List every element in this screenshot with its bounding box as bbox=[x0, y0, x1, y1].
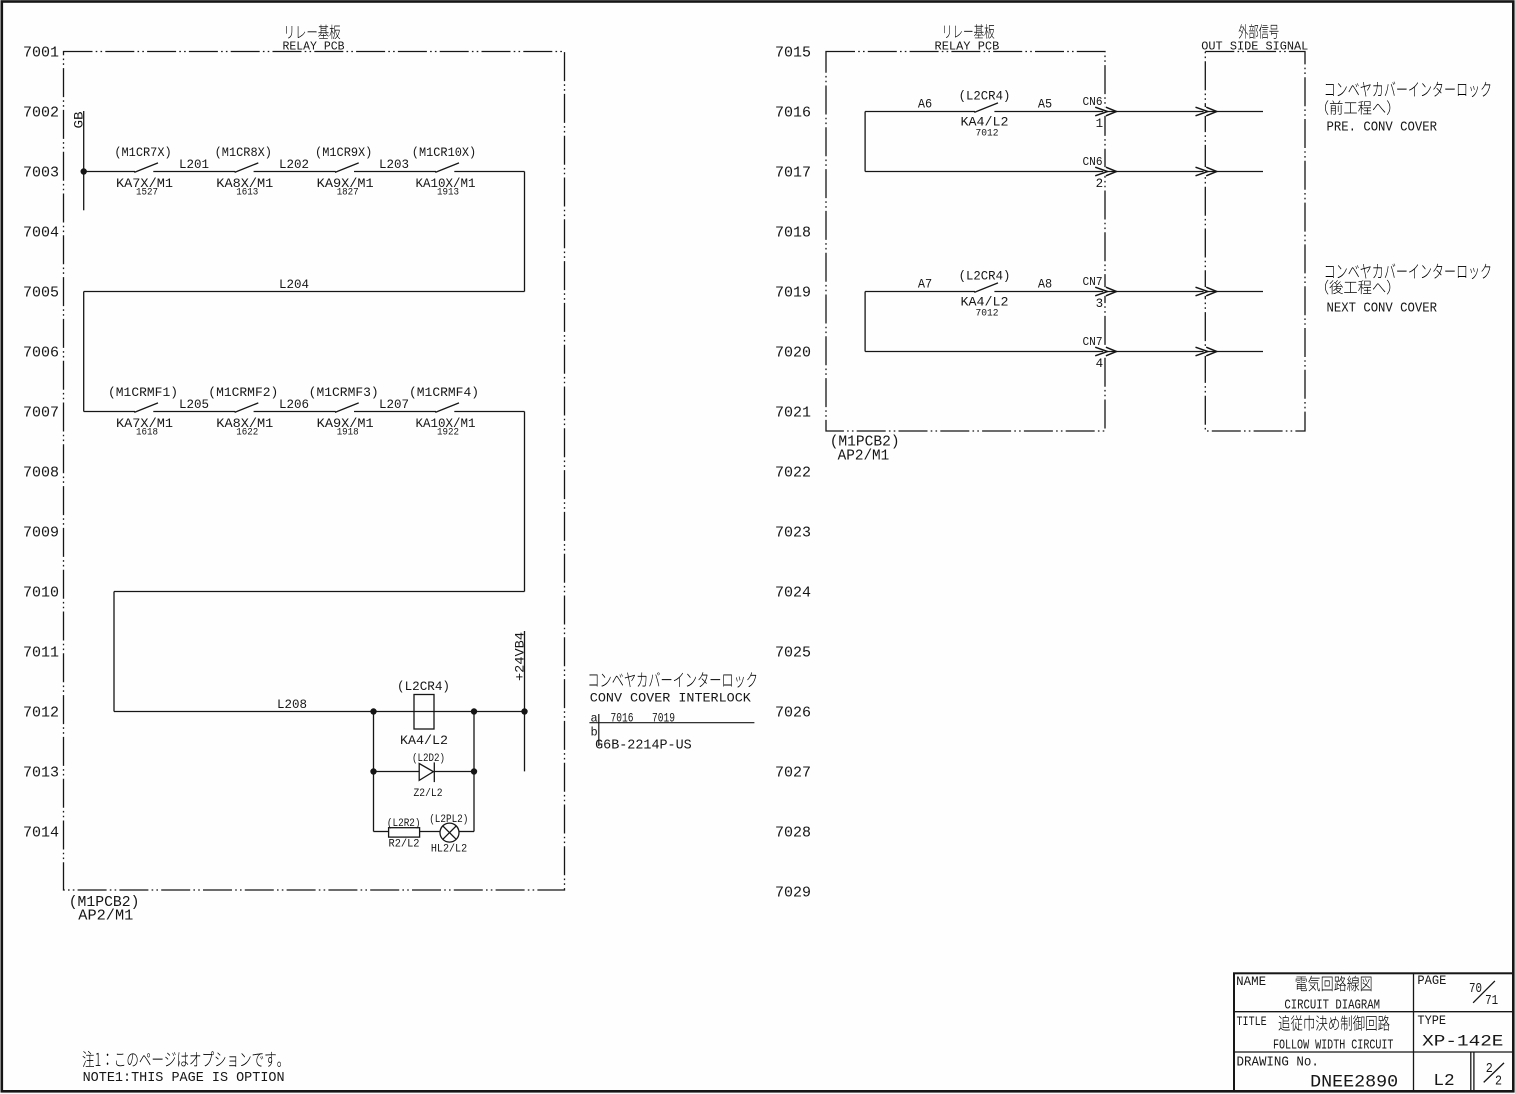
svg-text:7024: 7024 bbox=[775, 585, 811, 602]
contact M1CR7X KA7X/M1 bbox=[134, 163, 158, 173]
svg-text:NAME: NAME bbox=[1236, 974, 1266, 989]
wire 7007 seg0 bbox=[84, 411, 135, 413]
svg-text:CONV COVER INTERLOCK: CONV COVER INTERLOCK bbox=[590, 691, 751, 706]
sheet fraction slash bbox=[1484, 1063, 1504, 1083]
note 注1：このページはオプションです。 bbox=[83, 1051, 281, 1067]
wire 7003 to 7005 (right vertical) bbox=[524, 172, 526, 292]
svg-text:L202: L202 bbox=[279, 157, 309, 172]
svg-text:1: 1 bbox=[1096, 117, 1104, 131]
svg-text:7028: 7028 bbox=[775, 825, 811, 842]
svg-text:HL2/L2: HL2/L2 bbox=[431, 844, 467, 856]
svg-text:7019: 7019 bbox=[775, 285, 811, 302]
wire 7014 seg2 bbox=[459, 831, 474, 833]
contact M1CR10X KA10X/M1 bbox=[435, 163, 459, 173]
contact L2CR4 A6-A5 bbox=[974, 103, 998, 113]
connector arrow outside CN7 pin 4 bbox=[1204, 347, 1207, 356]
svg-text:1827: 1827 bbox=[337, 188, 359, 199]
svg-text:7008: 7008 bbox=[23, 465, 59, 482]
svg-text:AP2/M1: AP2/M1 bbox=[78, 908, 133, 925]
svg-text:L204: L204 bbox=[279, 277, 309, 292]
svg-text:L201: L201 bbox=[179, 157, 209, 172]
connector arrow outside CN6 pin 1 bbox=[1204, 107, 1207, 116]
svg-text:L207: L207 bbox=[379, 397, 409, 412]
svg-text:L206: L206 bbox=[279, 397, 309, 412]
connector arrow outside CN7 pin 3 bbox=[1204, 287, 1207, 296]
svg-text:7006: 7006 bbox=[23, 345, 59, 362]
svg-text:7013: 7013 bbox=[23, 765, 59, 782]
wire 7012 L208 bbox=[114, 711, 525, 713]
contact M1CRMF4 KA10X/M1 bbox=[435, 403, 459, 413]
svg-text:CIRCUIT DIAGRAM: CIRCUIT DIAGRAM bbox=[1284, 998, 1380, 1014]
diode L2D2 Z2/L2 bbox=[419, 764, 433, 781]
svg-text:2: 2 bbox=[1096, 177, 1104, 191]
svg-text:L2: L2 bbox=[1433, 1072, 1454, 1091]
svg-text:DRAWING No.: DRAWING No. bbox=[1237, 1055, 1319, 1071]
wire 7007 seg4 bbox=[454, 411, 524, 413]
relay PCB boundary box (right) bbox=[826, 52, 1105, 432]
svg-text:(L2PL2): (L2PL2) bbox=[429, 814, 468, 826]
svg-text:NOTE1:THIS PAGE IS OPTION: NOTE1:THIS PAGE IS OPTION bbox=[83, 1071, 285, 1086]
svg-text:1613: 1613 bbox=[236, 188, 258, 199]
svg-text:(L2R2): (L2R2) bbox=[387, 818, 421, 830]
wire CN6 pin2 bbox=[865, 171, 1263, 173]
label リレー基板 (right) bbox=[944, 24, 994, 39]
svg-text:RELAY PCB: RELAY PCB bbox=[283, 40, 345, 54]
wire 7007 seg2 bbox=[254, 411, 336, 413]
svg-text:7002: 7002 bbox=[23, 105, 59, 122]
svg-text:7003: 7003 bbox=[23, 165, 59, 182]
svg-text:7023: 7023 bbox=[775, 525, 811, 542]
svg-text:CN6: CN6 bbox=[1083, 95, 1103, 109]
contact L2CR4 A7-A8 bbox=[974, 283, 998, 293]
wire 7003 seg0 bbox=[84, 171, 135, 173]
svg-text:A7: A7 bbox=[918, 277, 932, 292]
svg-text:4: 4 bbox=[1096, 357, 1104, 371]
svg-text:CN7: CN7 bbox=[1083, 275, 1103, 289]
svg-text:7007: 7007 bbox=[23, 405, 59, 422]
svg-text:A8: A8 bbox=[1038, 277, 1052, 292]
svg-text:7012: 7012 bbox=[976, 128, 999, 139]
svg-text:a: a bbox=[591, 712, 598, 726]
contact M1CR9X KA9X/M1 bbox=[335, 163, 359, 173]
wire branch right vertical bbox=[473, 712, 475, 832]
svg-text:7027: 7027 bbox=[775, 765, 811, 782]
note コンベヤカバーインターロック (pre) bbox=[1326, 81, 1491, 97]
junction 7013 left bbox=[370, 768, 376, 774]
svg-text:3: 3 bbox=[1096, 297, 1104, 311]
svg-text:+24VB4: +24VB4 bbox=[512, 632, 527, 681]
svg-text:(L2CR4): (L2CR4) bbox=[959, 270, 1011, 284]
connector arrow outside CN6 pin 2 bbox=[1204, 167, 1207, 176]
title 電気回路線図 bbox=[1296, 976, 1372, 992]
svg-text:7015: 7015 bbox=[775, 45, 811, 62]
svg-text:7005: 7005 bbox=[23, 285, 59, 302]
svg-text:1618: 1618 bbox=[136, 428, 158, 439]
svg-text:7016: 7016 bbox=[775, 105, 811, 122]
wire 7007 seg1 bbox=[153, 411, 235, 413]
wire 7003 seg1 bbox=[153, 171, 235, 173]
wire 7013 cathode bbox=[434, 771, 474, 773]
svg-text:1622: 1622 bbox=[236, 428, 258, 439]
out side signal boundary box bbox=[1205, 52, 1305, 432]
svg-text:(M1CR9X): (M1CR9X) bbox=[315, 146, 372, 160]
connector arrow CN6 pin 1 bbox=[1103, 107, 1106, 116]
svg-text:KA4/L2: KA4/L2 bbox=[961, 294, 1009, 309]
note （前工程へ） bbox=[1325, 100, 1390, 115]
svg-text:KA4/L2: KA4/L2 bbox=[961, 114, 1009, 129]
junction 7012 left bbox=[370, 708, 376, 714]
svg-text:FOLLOW WIDTH CIRCUIT: FOLLOW WIDTH CIRCUIT bbox=[1273, 1038, 1394, 1054]
svg-text:Z2/L2: Z2/L2 bbox=[414, 788, 443, 800]
svg-text:AP2/M1: AP2/M1 bbox=[838, 448, 890, 465]
wire 7007 to 7010 (right vertical) bbox=[524, 412, 526, 592]
relay PCB boundary box (left) bbox=[64, 52, 565, 891]
wire 7010 bbox=[114, 591, 525, 593]
junction 7012 +24VB4 bbox=[521, 708, 527, 714]
svg-text:7010: 7010 bbox=[23, 585, 59, 602]
svg-text:1527: 1527 bbox=[136, 188, 158, 199]
contact M1CR8X KA8X/M1 bbox=[235, 163, 259, 173]
svg-text:7029: 7029 bbox=[775, 885, 811, 902]
node +24VB4 power stub bbox=[524, 631, 526, 771]
svg-text:PRE. CONV COVER: PRE. CONV COVER bbox=[1327, 119, 1438, 135]
svg-text:OUT SIDE SIGNAL: OUT SIDE SIGNAL bbox=[1201, 40, 1308, 54]
svg-text:L208: L208 bbox=[277, 697, 307, 712]
svg-text:2: 2 bbox=[1495, 1074, 1502, 1090]
svg-text:G6B-2214P-US: G6B-2214P-US bbox=[595, 738, 692, 754]
svg-text:7025: 7025 bbox=[775, 645, 811, 662]
connector arrow CN7 pin 3 bbox=[1103, 287, 1106, 296]
contact M1CRMF1 KA7X/M1 bbox=[134, 403, 158, 413]
wire 7003 seg2 bbox=[254, 171, 336, 173]
svg-text:7026: 7026 bbox=[775, 705, 811, 722]
wire 7014 seg0 bbox=[374, 831, 390, 833]
note コンベヤカバーインターロック (next) bbox=[1326, 263, 1491, 279]
svg-text:71: 71 bbox=[1485, 993, 1498, 1009]
svg-text:7020: 7020 bbox=[775, 345, 811, 362]
svg-text:CN7: CN7 bbox=[1083, 335, 1103, 349]
svg-text:7011: 7011 bbox=[23, 645, 59, 662]
wire branch left vertical bbox=[373, 712, 375, 832]
wire 7005 to 7007 (left vertical) bbox=[83, 292, 85, 412]
wire CN7 pin3 seg1 bbox=[994, 291, 1263, 293]
resistor R2/L2 (L2R2) bbox=[389, 828, 420, 837]
junction GB / line 7003 bbox=[81, 168, 87, 174]
title 追従巾決め制御回路 bbox=[1279, 1015, 1390, 1031]
svg-text:7012: 7012 bbox=[976, 308, 999, 319]
svg-text:L203: L203 bbox=[379, 157, 409, 172]
contact M1CRMF3 KA9X/M1 bbox=[335, 403, 359, 413]
note （後工程へ） bbox=[1325, 280, 1390, 295]
svg-text:1913: 1913 bbox=[437, 188, 459, 199]
wire CN6 pin1 seg0 bbox=[865, 111, 975, 113]
svg-text:(M1CRMF3): (M1CRMF3) bbox=[309, 386, 379, 400]
svg-text:CN6: CN6 bbox=[1083, 155, 1103, 169]
svg-text:NEXT CONV COVER: NEXT CONV COVER bbox=[1327, 300, 1438, 316]
wire 7003 seg3 bbox=[354, 171, 436, 173]
svg-text:1922: 1922 bbox=[437, 428, 459, 439]
svg-text:1918: 1918 bbox=[337, 428, 359, 439]
wire 7005 L204 bbox=[84, 291, 525, 293]
svg-text:7014: 7014 bbox=[23, 825, 59, 842]
svg-text:TITLE: TITLE bbox=[1237, 1014, 1267, 1029]
svg-text:(L2CR4): (L2CR4) bbox=[397, 680, 450, 694]
note コンベヤカバーインターロック bbox=[589, 672, 756, 688]
title block frame bbox=[1234, 973, 1513, 1091]
svg-text:7021: 7021 bbox=[775, 405, 811, 422]
wire 7007 seg3 bbox=[354, 411, 436, 413]
svg-text:(M1CRMF2): (M1CRMF2) bbox=[208, 386, 278, 400]
junction 7013 right bbox=[471, 768, 477, 774]
svg-text:(M1CR7X): (M1CR7X) bbox=[114, 146, 171, 160]
wire 7014 seg1 bbox=[420, 831, 440, 833]
svg-text:A5: A5 bbox=[1038, 97, 1052, 112]
contact M1CRMF2 KA8X/M1 bbox=[235, 403, 259, 413]
svg-text:(L2CR4): (L2CR4) bbox=[959, 90, 1011, 104]
svg-text:(M1CR8X): (M1CR8X) bbox=[215, 146, 272, 160]
connector arrow CN6 pin 2 bbox=[1103, 167, 1106, 176]
page fraction slash bbox=[1473, 981, 1495, 1003]
wire CN7 pin4 bbox=[865, 351, 1263, 353]
svg-text:7009: 7009 bbox=[23, 525, 59, 542]
svg-text:7001: 7001 bbox=[23, 45, 59, 62]
svg-text:7022: 7022 bbox=[775, 465, 811, 482]
svg-text:(M1CR10X): (M1CR10X) bbox=[412, 146, 476, 160]
svg-text:TYPE: TYPE bbox=[1417, 1013, 1446, 1028]
junction 7012 right bbox=[471, 708, 477, 714]
svg-text:70: 70 bbox=[1469, 981, 1482, 997]
svg-text:L205: L205 bbox=[179, 397, 209, 412]
svg-text:(M1CRMF4): (M1CRMF4) bbox=[409, 386, 479, 400]
wire CN6 pin1 seg1 bbox=[994, 111, 1263, 113]
connector arrow CN7 pin 4 bbox=[1103, 347, 1106, 356]
wire 7003 seg4 bbox=[454, 171, 524, 173]
node GB power stub bbox=[83, 111, 85, 210]
table divider line bbox=[589, 722, 754, 724]
wire vertical A7 branch bbox=[864, 292, 866, 352]
svg-text:(L2D2): (L2D2) bbox=[412, 753, 445, 765]
svg-text:XP-142E: XP-142E bbox=[1422, 1033, 1503, 1051]
svg-text:GB: GB bbox=[71, 111, 86, 128]
svg-text:A6: A6 bbox=[918, 97, 932, 112]
wire vertical A6 branch bbox=[864, 112, 866, 172]
svg-text:DNEE2890: DNEE2890 bbox=[1310, 1073, 1398, 1093]
svg-text:(M1CRMF1): (M1CRMF1) bbox=[108, 386, 178, 400]
wire 7010 to 7012 (left vertical) bbox=[113, 592, 115, 712]
svg-text:PAGE: PAGE bbox=[1417, 973, 1446, 988]
wire CN7 pin3 seg0 bbox=[865, 291, 975, 293]
svg-text:7004: 7004 bbox=[23, 225, 59, 242]
wire 7013 anode bbox=[374, 771, 420, 773]
svg-text:KA4/L2: KA4/L2 bbox=[400, 733, 448, 748]
lamp HL2/L2 (L2PL2) bbox=[440, 823, 459, 842]
svg-text:RELAY PCB: RELAY PCB bbox=[935, 40, 1000, 54]
label リレー基板 (left) bbox=[286, 25, 340, 40]
svg-text:7012: 7012 bbox=[23, 705, 59, 722]
svg-text:7017: 7017 bbox=[775, 165, 811, 182]
svg-text:7018: 7018 bbox=[775, 225, 811, 242]
svg-text:R2/L2: R2/L2 bbox=[389, 839, 420, 851]
relay coil L2CR4 KA4/L2 bbox=[414, 695, 434, 730]
label 外部信号 bbox=[1239, 24, 1279, 39]
